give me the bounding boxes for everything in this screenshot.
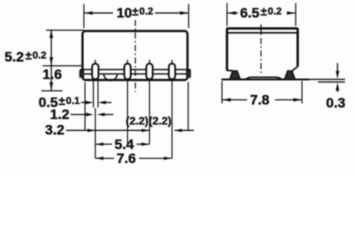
dim 7.6 : dimension line with arrows: [96, 157, 115, 159]
dim 0.3 : lead bottom line: [318, 81, 345, 83]
dim 10 +-0.2 : dimension line with arrows: [85, 12, 114, 14]
svg-text:10: 10: [117, 5, 133, 21]
dim 3.2 arrow: [88, 129, 96, 132]
svg-text:0.2: 0.2: [139, 7, 153, 18]
extension line at lead top (1.6 upper): [43, 65, 83, 67]
dim 1.6 : bottom arrow (down): [50, 82, 54, 90]
svg-text:7.6: 7.6: [117, 150, 137, 166]
right lead tab: [187, 71, 191, 78]
left lead tab: [80, 71, 84, 78]
dim 0.3 : lower arrow (up): [337, 87, 339, 92]
pin3 extension line: [149, 79, 151, 144]
left foot: [230, 71, 241, 80]
pin1 lead pair lines below body: [92, 79, 94, 107]
dim 10 +-0.2 : right extension line: [188, 4, 190, 28]
svg-text:0.3: 0.3: [326, 95, 346, 111]
dim 6.5 +-0.2 : left extension line: [226, 3, 228, 26]
dim 6.5 +-0.2 : right extension line: [295, 3, 297, 26]
right foot: [284, 71, 295, 80]
svg-text:(2.2): (2.2): [126, 115, 149, 127]
dim 5.4 : dimension line with arrows: [96, 143, 113, 145]
svg-text:0.2: 0.2: [33, 51, 47, 62]
body left edge extension line: [84, 82, 86, 130]
dim (2.2) arrows: [142, 129, 150, 132]
dim 7.8 : right extension line: [301, 81, 303, 104]
dim 3.2 / (2.2)(2.2) shared dimension line: [66, 129, 149, 131]
svg-text:0.2: 0.2: [268, 7, 282, 18]
dim 0.3 : seating plane line: [309, 78, 345, 80]
pin 3 capsule: [149, 60, 151, 64]
center line (left view, dash-dot): [134, 20, 136, 92]
svg-text:(2.2): (2.2): [149, 115, 172, 127]
dim 1.2 : leader lines and arrows: [71, 114, 87, 116]
pin2 extension line: [127, 79, 129, 144]
extension line at body top left: [46, 29, 84, 31]
svg-text:1.2: 1.2: [50, 106, 70, 122]
pin1 extension line: [94, 108, 96, 159]
dim 0.5 : leader lines and arrows: [81, 102, 86, 104]
svg-text:±: ±: [261, 5, 268, 19]
dim 5.2 : top arrow: [50, 30, 54, 38]
svg-text:±: ±: [132, 5, 139, 19]
svg-text:7.8: 7.8: [250, 92, 270, 108]
relay body side view (left view): [83, 31, 188, 80]
svg-text:6.5: 6.5: [240, 5, 260, 21]
dim 6.5 +-0.2 : dimension line with arrows: [227, 12, 238, 14]
pin4 extension line: [171, 79, 173, 158]
lead strip upper line: [80, 69, 191, 71]
dim 5.2 : bottom arrow (down): [50, 57, 54, 65]
case bottom arc bump: [104, 74, 117, 81]
pin 1 capsule: [94, 60, 96, 64]
svg-text:±: ±: [25, 49, 32, 63]
dim 7.8 : dimension line with arrows: [222, 99, 247, 101]
svg-text:1.6: 1.6: [43, 66, 63, 82]
dim 5.2 / 1.6 : vertical dimension line: [50, 30, 52, 91]
relay body end view (right view): [227, 28, 298, 70]
extension line 1.6 lower: [41, 90, 62, 92]
case bottom middle bump: [246, 77, 282, 79]
dim 7.8 : left extension line: [221, 81, 223, 104]
lead strip lower line: [80, 73, 191, 75]
dim 10 +-0.2 : left extension line: [83, 4, 85, 28]
pin 2 capsule: [127, 60, 129, 64]
right edge to foot connector: [292, 67, 298, 71]
body right edge extension line: [187, 82, 189, 131]
svg-text:3.2: 3.2: [45, 122, 65, 138]
center line (right view): [260, 25, 262, 36]
seating / bottom line: [222, 78, 310, 80]
case top seam line: [227, 32, 298, 34]
pin 4 capsule: [171, 60, 173, 64]
left edge to foot connector: [227, 70, 233, 72]
dim 0.3 : upper arrow (down): [337, 63, 339, 72]
svg-text:5.2: 5.2: [5, 49, 25, 65]
